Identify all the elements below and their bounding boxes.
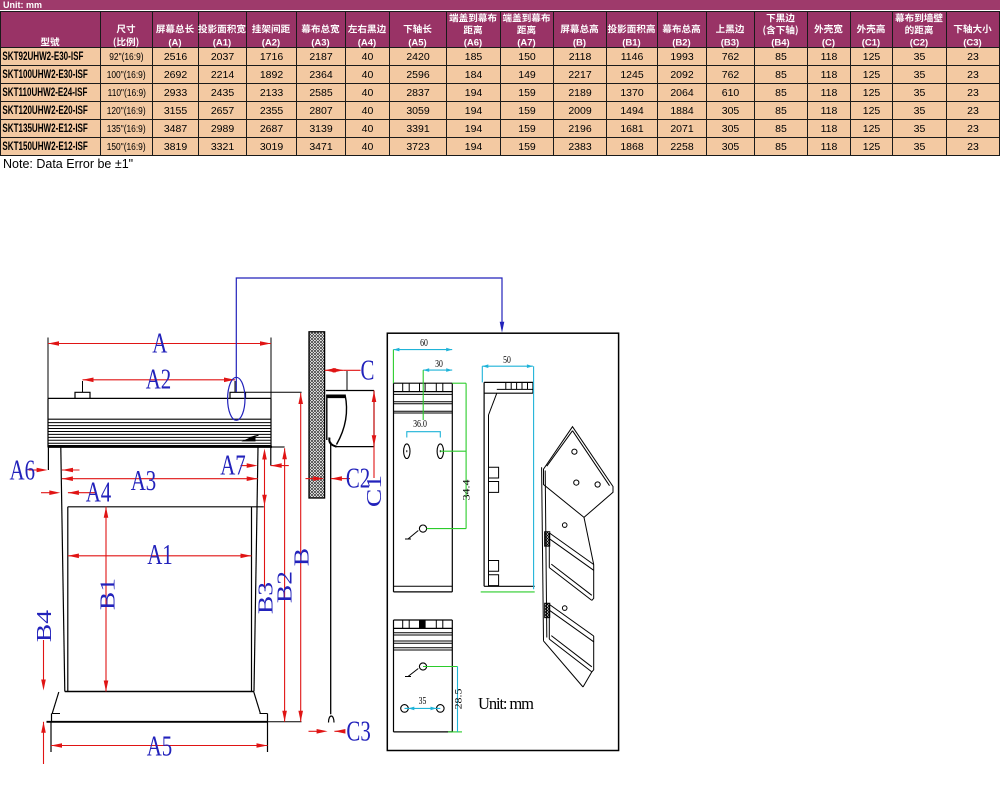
dim 30 cyan [423,369,452,371]
viewable area [68,506,264,508]
bracket3 bottom view [394,619,453,621]
dim B2 [284,448,286,722]
roller arc [337,395,347,445]
ext line bar-bottom to B dim [268,721,302,723]
dim B3 [264,458,266,588]
case section [326,390,374,392]
dim C2 [306,478,316,480]
svg-text:30: 30 [435,359,443,371]
svg-text:A7: A7 [220,449,246,481]
A2 ext ticks [82,381,84,392]
svg-text:35: 35 [419,696,427,708]
svg-text:B4: B4 [33,610,56,642]
dim C1 [373,391,375,479]
bracket3 bottom holes [401,705,409,713]
svg-text:(C): (C) [822,37,835,48]
C dim tick [346,371,348,391]
svg-text:(C2): (C2) [910,37,928,48]
dim A6 [29,469,39,471]
dim B1 [105,507,107,692]
svg-text:(A2): (A2) [262,37,280,48]
green baseline bracket2 [481,591,535,593]
dim B4 [43,640,45,682]
bracket1 holes [404,444,410,459]
svg-text:34.4: 34.4 [463,479,472,501]
dim A5 [51,745,268,747]
svg-text:B1: B1 [97,578,120,610]
bracket2 snap hooks [489,467,499,478]
svg-text:Unit: mm: Unit: mm [478,694,534,713]
svg-text:(A6): (A6) [464,37,482,48]
svg-text:B2: B2 [274,571,297,603]
svg-text:A5: A5 [147,730,173,762]
logo wedge [241,435,255,441]
dim C [325,369,344,371]
green connectors and 34.4 dim [452,382,466,384]
dim 50 cyan [482,365,533,367]
dim 60 cyan [393,349,452,351]
bracket1 front view [394,382,453,384]
blue callout circle [228,377,245,420]
fabric edges [61,448,65,692]
svg-text:(A5): (A5) [408,37,426,48]
bracket2 side view [484,381,533,383]
svg-text:A6: A6 [10,454,36,486]
screen case front view [48,397,271,399]
case end caps below [47,448,49,471]
svg-text:(A3): (A3) [311,37,329,48]
svg-text:A3: A3 [131,465,157,497]
svg-text:(B3): (B3) [721,37,739,48]
svg-text:A2: A2 [146,363,172,395]
svg-text:28.5: 28.5 [455,689,464,710]
bracket1 lower hole [419,525,426,532]
svg-text:(B2): (B2) [672,37,690,48]
hole span staple cyan [407,432,441,438]
A5 ext lines [50,722,52,752]
bracket isometric view [544,427,614,518]
svg-text:(B4): (B4) [771,37,789,48]
wall section hatched [309,332,325,498]
svg-text:B: B [290,548,313,566]
svg-text:(A1): (A1) [213,37,231,48]
dim B [300,393,302,722]
dim 28.5 [423,666,458,668]
bracket3 top hole [419,663,426,670]
mounting tab right [230,392,246,398]
svg-text:C: C [361,354,375,386]
dim A1 [68,555,252,557]
svg-text:50: 50 [503,355,511,367]
svg-text:60: 60 [420,338,428,350]
svg-text:A: A [152,327,168,359]
dim A4 [41,492,52,494]
fabric hanging line [330,442,332,714]
svg-text:36.0: 36.0 [413,419,427,430]
dim A [48,343,271,345]
bottom hook [329,716,335,723]
A ext lines [47,338,49,399]
dim A7 [241,465,250,467]
svg-text:(A): (A) [168,37,181,48]
blue leader line [236,278,502,392]
svg-text:(A7): (A7) [517,37,535,48]
svg-text:(C3): (C3) [963,37,981,48]
dim A2 [83,379,236,381]
bottom weight bar [52,692,59,714]
dim C3 [309,730,320,732]
svg-text:(B): (B) [573,37,586,48]
dim 35 cyan [405,707,441,709]
svg-text:C2: C2 [346,462,370,494]
roller thick bar [327,394,345,398]
svg-text:A1: A1 [147,539,173,571]
svg-text:(B1): (B1) [622,37,640,48]
green line 30 to hole label [422,370,424,420]
svg-text:(C1): (C1) [862,37,880,48]
dim A3 [62,478,258,480]
detail box frame [387,333,618,750]
mounting tab left [75,392,90,398]
svg-text:C3: C3 [346,715,370,747]
svg-text:(A4): (A4) [358,37,376,48]
ext line tab-top to B dim [246,391,302,393]
svg-text:A4: A4 [86,476,112,508]
